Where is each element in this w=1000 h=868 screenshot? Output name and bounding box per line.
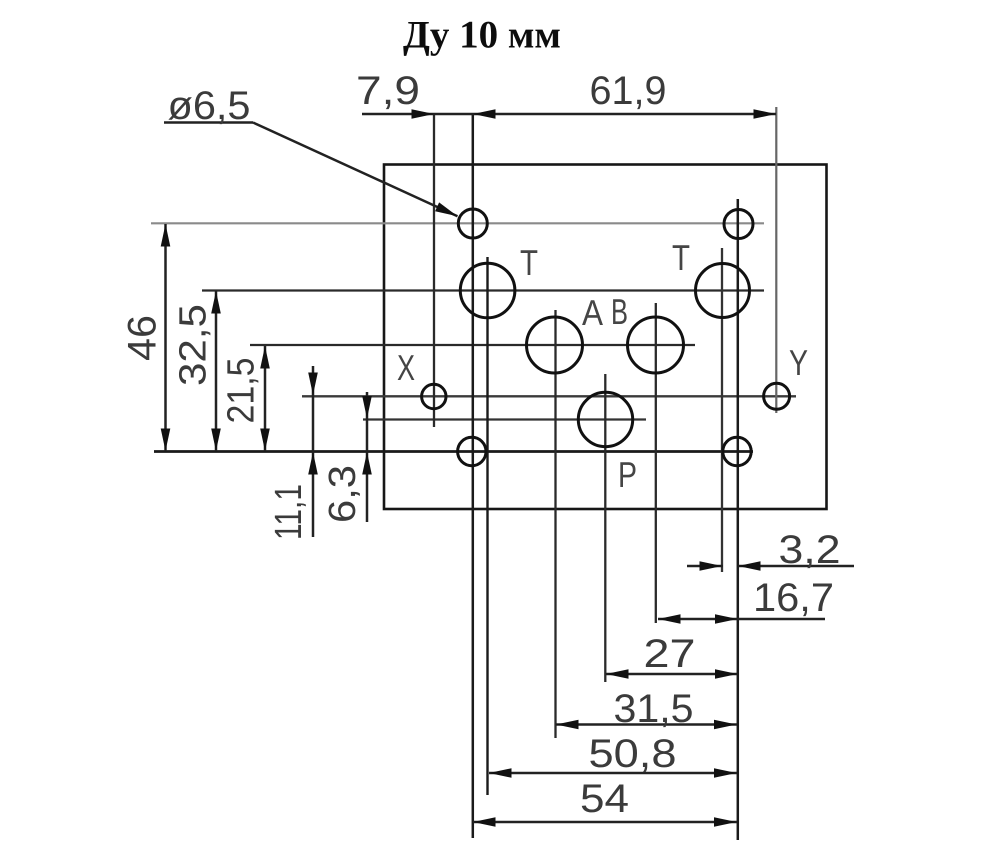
svg-text:ø6,5: ø6,5 bbox=[168, 84, 251, 128]
svg-text:32,5: 32,5 bbox=[173, 304, 215, 386]
svg-text:31,5: 31,5 bbox=[614, 687, 694, 731]
svg-text:7,9: 7,9 bbox=[356, 69, 420, 113]
svg-text:P: P bbox=[618, 454, 637, 495]
svg-text:61,9: 61,9 bbox=[590, 69, 667, 113]
svg-text:11,1: 11,1 bbox=[268, 484, 310, 540]
svg-text:21,5: 21,5 bbox=[221, 358, 263, 424]
svg-text:Y: Y bbox=[789, 342, 808, 383]
svg-text:Ду 10 мм: Ду 10 мм bbox=[403, 14, 561, 57]
svg-text:16,7: 16,7 bbox=[753, 576, 834, 620]
svg-text:54: 54 bbox=[580, 777, 629, 821]
svg-text:X: X bbox=[397, 347, 415, 388]
svg-text:3,2: 3,2 bbox=[779, 528, 841, 572]
svg-text:A: A bbox=[582, 292, 603, 333]
svg-text:46: 46 bbox=[121, 315, 165, 361]
svg-text:B: B bbox=[611, 291, 628, 332]
svg-text:T: T bbox=[520, 242, 538, 283]
svg-text:T: T bbox=[672, 237, 690, 278]
svg-text:6,3: 6,3 bbox=[322, 465, 364, 523]
svg-text:50,8: 50,8 bbox=[589, 732, 677, 776]
svg-text:27: 27 bbox=[644, 632, 696, 676]
